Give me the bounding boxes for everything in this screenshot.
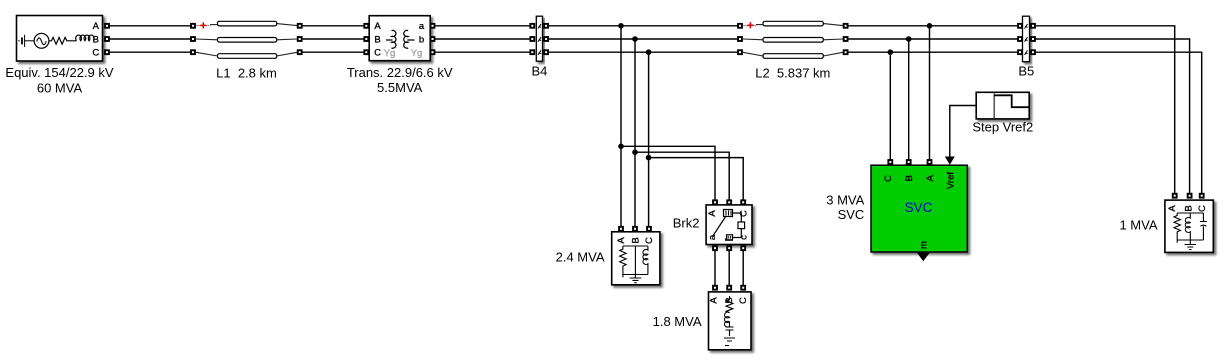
svg-text:B: B: [1184, 205, 1195, 211]
inductor of 2.4 MVA: [643, 246, 648, 275]
svg-text:a: a: [707, 234, 718, 240]
L2 conductor pill phase C: [763, 54, 823, 59]
svg-text:B: B: [631, 237, 642, 243]
wire phase A: B4 to L2: [546, 25, 740, 27]
port B of L1 left: [190, 36, 196, 42]
port B of L2 right: [843, 36, 849, 42]
capacitor of 1 MVA: [1200, 213, 1207, 240]
wire phase A: transformer to B4: [433, 25, 533, 27]
svg-text:5.5MVA: 5.5MVA: [377, 80, 423, 95]
L2 stub wires: [743, 24, 843, 56]
svg-text:1 MVA: 1 MVA: [1119, 217, 1157, 232]
secondary winding coil: [404, 30, 415, 48]
port C of source: [104, 49, 110, 55]
wire phase B: L2 to B5: [846, 38, 1020, 40]
wire phase C: B4 to L2: [546, 51, 740, 53]
junction node phase A at x=621: [618, 23, 624, 29]
port c of transformer: [430, 49, 436, 55]
wire branch A to Brk2: [621, 146, 715, 202]
port a of Brk2: [712, 245, 718, 251]
svg-text:Step Vref2: Step Vref2: [972, 120, 1033, 135]
port c of Brk2: [740, 245, 746, 251]
port A of L1 left: [190, 23, 196, 29]
resistor of 2.4 MVA: [620, 246, 626, 277]
SVC block 3 MVA SVC: [826, 159, 967, 261]
load block 2.4 MVA: [556, 226, 660, 285]
port C of 1.8 MVA: [740, 285, 746, 291]
port C of L1 right: [297, 49, 303, 55]
svg-text:Trans. 22.9/6.6 kV: Trans. 22.9/6.6 kV: [347, 65, 453, 80]
svg-text:B: B: [374, 34, 380, 45]
wire phase C: L2 to B5: [846, 51, 1020, 53]
transformer Trans. 22.9/6.6 kV 5.5MVA: [347, 16, 453, 95]
port B of 2.4 MVA: [632, 226, 638, 232]
svg-text:A: A: [374, 21, 381, 32]
bus B5: [1017, 16, 1036, 78]
port B of Brk2: [726, 199, 732, 205]
port B of B4 right: [543, 36, 549, 42]
port B of 1.8 MVA: [726, 285, 732, 291]
port C of L1 left: [190, 49, 196, 55]
svg-text:Yg: Yg: [411, 48, 423, 59]
port A of source: [104, 23, 110, 29]
port A of 2.4 MVA: [618, 226, 624, 232]
ground bars of source: [18, 35, 34, 47]
RL load circuit of 2.4 MVA: [620, 246, 648, 283]
wire branch B to Brk2: [635, 152, 729, 202]
svg-text:B: B: [93, 34, 99, 45]
transmission line L1 2.8 km: [190, 21, 303, 80]
junction node branch B to Brk2: [632, 149, 638, 155]
svg-text:Brk2: Brk2: [673, 216, 700, 231]
svg-text:C: C: [374, 48, 381, 59]
port B of L2 left: [737, 36, 743, 42]
svg-text:1.8 MVA: 1.8 MVA: [653, 314, 702, 329]
wire Brk2 to 1.8 MVA load phase B: [728, 248, 730, 288]
port A of B4 left: [529, 23, 535, 29]
svg-text:A: A: [616, 237, 627, 244]
port B of source: [104, 36, 110, 42]
RLC load circuit of 1 MVA: [1174, 213, 1207, 250]
svg-text:L1 2.8 km: L1 2.8 km: [216, 65, 277, 80]
measurement marks inside B5: [1025, 24, 1028, 55]
series RLC circuit of 1.8 MVA: [724, 296, 735, 346]
ground of 1 MVA: [1185, 240, 1197, 250]
port C of Brk2: [740, 199, 746, 205]
port C of B5 right: [1030, 49, 1036, 55]
svg-text:3 MVA: 3 MVA: [826, 193, 864, 208]
unconnected m output arrow of SVC: [917, 253, 930, 261]
port A of B5 left: [1017, 23, 1023, 29]
ground of 2.4 MVA: [630, 275, 642, 283]
svg-text:C: C: [738, 297, 749, 304]
port A of 1.8 MVA: [712, 285, 718, 291]
wire Step Vref2 to SVC Vref: [950, 106, 976, 158]
port C of 2.4 MVA: [646, 226, 652, 232]
svg-text:b: b: [419, 34, 424, 45]
port C of B5 left: [1017, 49, 1023, 55]
port A of Brk2: [712, 199, 718, 205]
wire phase B: L1 to transformer: [300, 38, 367, 40]
step source block Step Vref2: [972, 92, 1033, 134]
load block 1.8 MVA: [653, 285, 751, 350]
resistor of 1 MVA: [1174, 213, 1180, 243]
svg-text:A: A: [93, 21, 100, 32]
port a of transformer: [430, 23, 436, 29]
wire phase A: source to L1: [107, 25, 193, 27]
svg-text:a: a: [419, 21, 425, 32]
primary winding coil: [386, 30, 396, 48]
port B of B5 left: [1017, 36, 1023, 42]
AC voltage source circle: [34, 33, 49, 48]
port A of SVC: [927, 159, 933, 165]
measurement marks inside B4: [538, 24, 541, 55]
svg-text:A: A: [925, 174, 936, 181]
junction node phase C at x=648.6: [646, 49, 652, 55]
L1 conductor pill phase A: [218, 21, 277, 26]
L2 conductor pill phase A: [763, 21, 823, 26]
port C of SVC: [887, 159, 893, 165]
port C of 1 MVA: [1199, 193, 1205, 199]
wire phase A: L2 to B5: [846, 25, 1020, 27]
L1 stub wires: [196, 24, 297, 56]
source block Equiv. 154/22.9 kV 60 MVA: [5, 16, 113, 96]
wire phase B drop to SVC: [908, 39, 910, 162]
svg-text:60 MVA: 60 MVA: [37, 81, 83, 96]
junction node phase B at x=909: [906, 36, 912, 42]
junction node phase A at x=929.5: [927, 23, 933, 29]
junction node branch A to Brk2: [618, 144, 624, 150]
resistor of 1.8 MVA: [726, 296, 733, 313]
wire phase B: B4 to L2: [546, 38, 740, 40]
port B of SVC: [906, 159, 912, 165]
arrowhead into SVC Vref port: [945, 157, 955, 165]
svg-text:C: C: [92, 48, 99, 59]
ground of 1.8 MVA: [724, 338, 735, 346]
wire phase C: B5 to 1 MVA load: [1033, 52, 1202, 196]
wire branch C to Brk2: [649, 158, 744, 203]
svg-text:2.4 MVA: 2.4 MVA: [556, 250, 605, 265]
capacitor of 1.8 MVA: [726, 327, 734, 336]
port C of transformer: [363, 49, 369, 55]
port B of B5 right: [1030, 36, 1036, 42]
wire phase B: B5 to 1 MVA load: [1033, 39, 1190, 196]
svg-text:B4: B4: [531, 63, 547, 78]
wire phase C drop to SVC: [889, 52, 891, 162]
breaker switch symbol: [713, 210, 745, 241]
port A of L1 right: [297, 23, 303, 29]
svg-text:B: B: [904, 175, 915, 181]
port B of transformer: [363, 36, 369, 42]
wire phase A drop to 2.4 MVA load: [620, 26, 622, 229]
junction node phase C at x=890: [888, 49, 894, 55]
wire phase A drop to SVC: [929, 26, 931, 162]
port A of B4 right: [543, 23, 549, 29]
wire phase C: transformer to B4: [433, 51, 533, 53]
L2 conductor pill phase B: [763, 38, 823, 43]
breaker Brk2: [673, 199, 752, 251]
port b of Brk2: [726, 245, 732, 251]
junction node branch C to Brk2: [646, 155, 652, 161]
svg-text:C: C: [1197, 205, 1208, 212]
svg-text:C: C: [883, 175, 894, 182]
wire Brk2 to 1.8 MVA load phase C: [742, 248, 744, 288]
svg-text:B5: B5: [1018, 63, 1034, 78]
load block 1 MVA: [1119, 193, 1213, 253]
bus B4: [529, 16, 549, 78]
port C of B4 right: [543, 49, 549, 55]
inductor of 1.8 MVA: [725, 312, 730, 327]
svg-text:A: A: [1167, 205, 1178, 212]
svg-text:A: A: [709, 297, 720, 304]
wire phase C: L1 to transformer: [300, 51, 367, 53]
port C of L2 right: [843, 49, 849, 55]
svg-text:SVC: SVC: [905, 200, 933, 215]
port A of L2 right: [843, 23, 849, 29]
wire phase A: L1 to transformer: [300, 25, 367, 27]
transmission line L2 5.837 km: [737, 21, 848, 80]
port C of B4 left: [529, 49, 535, 55]
wire phase C: source to L1: [107, 51, 193, 53]
junction node phase B at x=635: [632, 36, 638, 42]
wire phase C drop to 2.4 MVA load: [648, 52, 650, 229]
svg-text:Equiv. 154/22.9 kV: Equiv. 154/22.9 kV: [5, 65, 113, 80]
wire phase B: source to L1: [107, 38, 193, 40]
red plus marker on L1 input: [200, 22, 206, 28]
port B of 1 MVA: [1187, 193, 1193, 199]
svg-text:m: m: [919, 241, 930, 249]
resistor of source: [49, 37, 70, 44]
port b of transformer: [430, 36, 436, 42]
svg-text:Vref: Vref: [946, 172, 957, 189]
svg-text:A: A: [707, 210, 718, 217]
red plus marker on L2 input: [747, 22, 753, 28]
inductor of 1 MVA: [1185, 213, 1190, 240]
port B of L1 right: [297, 36, 303, 42]
step waveform icon: [993, 94, 995, 119]
wire phase B: transformer to B4: [433, 38, 533, 40]
L1 conductor pill phase C: [218, 54, 277, 59]
port A of transformer: [363, 23, 369, 29]
L1 conductor pill phase B: [218, 38, 277, 43]
svg-text:C: C: [644, 237, 655, 244]
port B of B4 left: [529, 36, 535, 42]
port A of L2 left: [737, 23, 743, 29]
port A of 1 MVA: [1172, 193, 1178, 199]
svg-text:SVC: SVC: [838, 207, 865, 222]
wire phase A: B5 to 1 MVA load: [1033, 26, 1175, 196]
svg-text:Yg: Yg: [384, 48, 396, 59]
port C of L2 left: [737, 49, 743, 55]
wire phase B drop to 2.4 MVA load: [634, 39, 636, 229]
svg-text:L2 5.837 km: L2 5.837 km: [755, 65, 830, 80]
port A of B5 right: [1030, 23, 1036, 29]
inductor of source: [70, 35, 94, 41]
wire Brk2 to 1.8 MVA load phase A: [714, 248, 716, 288]
